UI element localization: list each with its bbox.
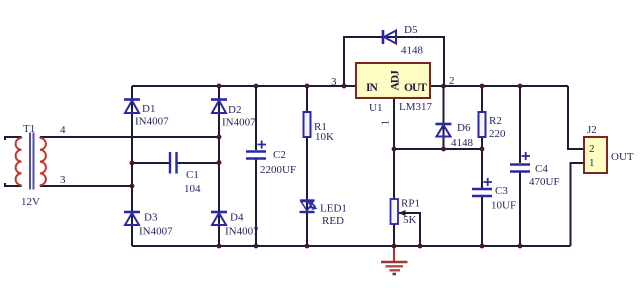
transformer T1 left coil [16, 137, 22, 186]
svg-text:C4: C4 [535, 163, 548, 175]
svg-text:104: 104 [184, 183, 201, 195]
diode D1 [124, 100, 169, 128]
svg-text:IN: IN [366, 82, 378, 94]
connector J2 [584, 124, 634, 173]
svg-text:R2: R2 [489, 115, 502, 127]
svg-text:4148: 4148 [401, 45, 424, 57]
node dots bridge [130, 135, 222, 189]
svg-text:2: 2 [589, 143, 595, 155]
node dots bottom rail [217, 244, 523, 249]
LED LED1 [300, 201, 347, 228]
diode D6 [436, 122, 474, 149]
wire D5 bypass branch [344, 37, 444, 86]
wire C3 column [481, 149, 483, 246]
wire J2 pin2 lead [568, 86, 584, 149]
svg-text:D2: D2 [228, 104, 241, 116]
svg-text:ADJ: ADJ [390, 70, 402, 91]
svg-text:3: 3 [331, 76, 337, 88]
wire top rail right of U1 [430, 85, 568, 87]
svg-text:220: 220 [489, 128, 506, 140]
svg-text:12V: 12V [21, 196, 40, 208]
svg-text:D3: D3 [144, 212, 158, 224]
svg-text:10UF: 10UF [491, 200, 516, 212]
wire RP1 wiper to bottom rail [399, 213, 420, 246]
wire C4 column [519, 86, 521, 246]
wire RP1 column [393, 149, 395, 246]
diode D4 [211, 212, 259, 238]
svg-text:IN4007: IN4007 [222, 117, 256, 129]
svg-text:LED1: LED1 [320, 203, 347, 215]
svg-text:D1: D1 [142, 103, 155, 115]
wire ADJ pin of U1 [393, 98, 395, 149]
svg-text:OUT: OUT [404, 82, 427, 94]
svg-text:10K: 10K [315, 131, 334, 143]
wire AC node 3 [40, 185, 132, 187]
svg-text:C3: C3 [495, 185, 508, 197]
resistor R1 [304, 112, 335, 143]
ground [381, 246, 408, 274]
transformer T1 right coil [40, 137, 46, 186]
wire top rail left of U1 [132, 85, 356, 87]
svg-text:C1: C1 [186, 169, 199, 181]
potentiometer RP1 [391, 198, 421, 227]
wire AC node 4 [40, 136, 219, 138]
capacitor C4 [510, 152, 560, 188]
svg-text:RP1: RP1 [401, 198, 420, 210]
wire bottom rail [132, 245, 571, 247]
svg-text:J2: J2 [587, 124, 597, 136]
svg-text:IN4007: IN4007 [225, 226, 259, 238]
svg-text:4: 4 [60, 124, 66, 136]
capacitor C1 [170, 152, 201, 195]
regulator U1 LM317 [331, 63, 455, 126]
svg-text:IN4007: IN4007 [135, 116, 169, 128]
node dots ADJ net [392, 147, 485, 152]
wire R1 LED column [306, 86, 308, 246]
diode D2 [211, 100, 256, 129]
wire D6 column [443, 86, 445, 149]
capacitor C2 [246, 141, 296, 177]
svg-text:U1: U1 [369, 102, 382, 114]
svg-text:LM317: LM317 [399, 101, 433, 113]
svg-text:1: 1 [589, 157, 595, 169]
wire ADJ net horizontal [394, 148, 482, 150]
wire C1 left lead [132, 162, 169, 164]
wire J2 pin1 lead [571, 163, 585, 246]
svg-text:IN4007: IN4007 [139, 226, 173, 238]
svg-text:OUT: OUT [611, 151, 634, 163]
wire transformer left leads [5, 137, 22, 186]
svg-text:3: 3 [60, 174, 66, 186]
svg-text:2: 2 [449, 75, 455, 87]
svg-text:4148: 4148 [451, 137, 474, 149]
resistor R2 [479, 112, 507, 140]
wire bridge column A [131, 86, 133, 246]
wire bridge column B [218, 86, 220, 246]
diode D3 [124, 212, 173, 238]
wire C2 column [255, 86, 257, 246]
diode D5 [383, 24, 424, 57]
svg-text:470UF: 470UF [529, 176, 560, 188]
transformer T1 [16, 123, 66, 208]
svg-text:D6: D6 [457, 122, 471, 134]
transformer T1 core [30, 133, 34, 190]
wire C1 right lead [177, 162, 219, 164]
svg-text:RED: RED [322, 215, 344, 227]
svg-text:5K: 5K [403, 214, 417, 226]
svg-text:T1: T1 [23, 123, 35, 135]
svg-text:D4: D4 [230, 212, 244, 224]
svg-text:2200UF: 2200UF [260, 164, 296, 176]
wire R2 column [481, 86, 483, 149]
svg-text:C2: C2 [273, 149, 286, 161]
node dots top rail [217, 84, 523, 89]
capacitor C3 [472, 178, 516, 212]
svg-text:D5: D5 [404, 24, 418, 36]
svg-text:1: 1 [380, 120, 392, 126]
